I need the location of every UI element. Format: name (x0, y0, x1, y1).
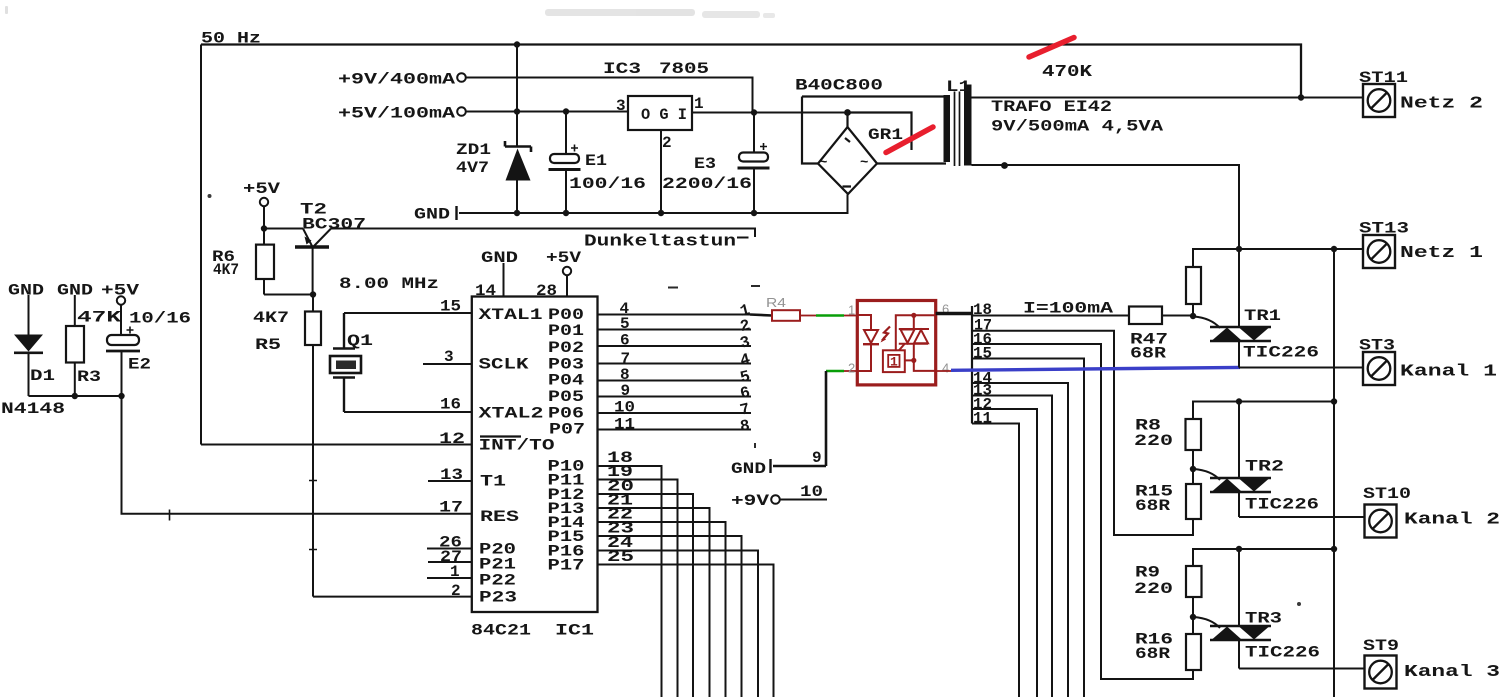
svg-text:P02: P02 (548, 339, 584, 357)
opto phototriac (896, 315, 936, 371)
wire phase rail (1333, 249, 1335, 697)
svg-text:ST9: ST9 (1363, 637, 1399, 655)
svg-text:SCLK: SCLK (479, 356, 530, 374)
red marker stroke over top rail (1029, 38, 1074, 58)
connector ST13 (1363, 235, 1395, 268)
wire 16 (972, 344, 1193, 679)
svg-text:O G I: O G I (641, 106, 687, 124)
svg-text:9: 9 (812, 449, 822, 467)
junction T2 base / R5 (310, 291, 316, 297)
triac TR2 TIC226 (1210, 478, 1271, 492)
svg-text:10/16: 10/16 (129, 310, 191, 328)
svg-text:TR2: TR2 (1245, 458, 1284, 476)
wire pin13 T1 stub (428, 480, 472, 482)
wire: 50Hz drop to INT/T0 (200, 45, 202, 445)
svg-text:N4148: N4148 (1, 400, 65, 418)
wire P16 pin24 (598, 551, 759, 697)
svg-text:220: 220 (1134, 580, 1173, 598)
svg-text:TIC226: TIC226 (1243, 344, 1319, 362)
junction Netz1/TR1 (1236, 246, 1242, 252)
svg-text:E3: E3 (694, 155, 716, 173)
svg-text:+9V: +9V (731, 492, 770, 510)
svg-text:BC307: BC307 (302, 216, 366, 234)
svg-text:TR3: TR3 (1245, 610, 1282, 628)
wire P07 pin11 (598, 429, 752, 431)
wire 18 to R47 (972, 315, 1129, 317)
junction GND/7805 pin2 (658, 210, 664, 216)
resistor R47 (1129, 307, 1162, 325)
wire pin12 INT/T0 (201, 444, 472, 446)
wire +9V feed (466, 78, 753, 113)
junction E2/bottom (118, 393, 124, 399)
svg-text:ST13: ST13 (1359, 220, 1409, 238)
wire trafo bottom to Netz1 (972, 165, 1240, 249)
svg-text:P04: P04 (548, 372, 584, 390)
svg-text:10: 10 (614, 399, 635, 417)
svg-text:3: 3 (444, 348, 454, 366)
red marker stroke over bridge (886, 127, 933, 153)
resistor R6 (256, 229, 313, 295)
svg-text:4K7: 4K7 (213, 261, 239, 279)
wire 11 (972, 424, 1019, 697)
wire R8 to R15 (1192, 450, 1194, 484)
wire 12 (972, 409, 1037, 697)
opto light arrows (882, 327, 890, 341)
junction R47/R7 (1190, 313, 1196, 319)
wire +5V feed to 7805 pin3 (466, 111, 628, 113)
svg-text:T1: T1 (480, 473, 506, 491)
terminal circle +5V E2 (117, 296, 125, 304)
transistor T2 BC307 (295, 229, 331, 295)
svg-text:IC1: IC1 (555, 622, 594, 640)
wire Kanal2 (1239, 516, 1365, 518)
capacitor E2 (106, 305, 140, 396)
wire P12 pin20 (598, 494, 694, 697)
svg-text:GND: GND (731, 460, 766, 478)
wire TR1 gate (1194, 317, 1220, 329)
svg-text:68R: 68R (1135, 497, 1170, 515)
svg-text:P23: P23 (479, 589, 517, 607)
junction top rail / zener (514, 41, 520, 47)
wire TR1 MT2 (1238, 249, 1240, 327)
wire pin28 (566, 276, 568, 297)
svg-text:25: 25 (607, 548, 634, 566)
wire P13 pin21 (598, 508, 710, 697)
scan smudge top (5, 6, 775, 18)
svg-text:1: 1 (450, 563, 460, 581)
resistor R8 (1186, 419, 1202, 450)
junction GND/zener (514, 210, 520, 216)
transformer L1 secondary bar (964, 85, 972, 166)
svg-text:+5V: +5V (546, 249, 581, 267)
wire TR2 MT1 (1238, 492, 1240, 517)
svg-text:84C21: 84C21 (471, 622, 531, 640)
junction opto marking (911, 358, 916, 363)
svg-text:8.00 MHz: 8.00 MHz (339, 275, 439, 293)
wire: 50Hz top rail (201, 45, 1301, 98)
terminal circle +5V (457, 107, 466, 116)
svg-text:E2: E2 (128, 356, 151, 374)
svg-text:I=100mA: I=100mA (1023, 300, 1114, 318)
svg-text:GND: GND (8, 282, 44, 300)
svg-text:ST3: ST3 (1359, 337, 1395, 355)
svg-text:GR1: GR1 (868, 126, 903, 144)
junction +9V/E3 (751, 109, 757, 115)
wire opto pin6 to bus (936, 312, 972, 315)
wire Kanal1 (1239, 367, 1363, 369)
wire P01 pin5 (598, 329, 752, 331)
wire 15 (972, 359, 1084, 697)
speck marks above P0 bus (668, 286, 760, 288)
svg-text:6: 6 (620, 332, 630, 350)
wire P10 pin18 (598, 466, 662, 697)
svg-text:L1: L1 (946, 78, 971, 96)
svg-text:R3: R3 (77, 368, 101, 386)
svg-text:1: 1 (694, 95, 704, 113)
tick on RES wire (169, 510, 171, 521)
svg-text:ZD1: ZD1 (456, 141, 491, 159)
tick near P07 (754, 443, 756, 448)
wire P17 pin25 (598, 565, 774, 697)
svg-text:XTAL2: XTAL2 (479, 405, 544, 423)
svg-text:P05: P05 (548, 388, 584, 406)
junction TR3 top/MT2 (1236, 546, 1242, 552)
wire GND to opto pin2 (773, 465, 826, 468)
wire 13 (972, 396, 1052, 697)
wire R9 to R16 (1192, 597, 1194, 634)
wire R47 to TR1 gate (1162, 315, 1193, 317)
svg-text:15: 15 (440, 298, 461, 316)
wire pin26 stub (427, 548, 472, 550)
svg-text:RES: RES (480, 508, 520, 526)
wire P04 pin8 (598, 380, 752, 382)
svg-text:P22: P22 (479, 572, 516, 590)
svg-text:R4: R4 (766, 295, 786, 310)
wire pin27 stub (428, 561, 472, 563)
resistor R4 (750, 315, 772, 316)
wire 7805 pin2 to GND rail (660, 130, 662, 213)
wire 14 (972, 383, 1068, 697)
wire R4 to opto pin1 (800, 315, 816, 317)
svg-text:ST10: ST10 (1363, 485, 1411, 503)
svg-text:13: 13 (440, 466, 463, 484)
svg-text:9: 9 (621, 382, 631, 400)
svg-text:2: 2 (848, 361, 855, 376)
blue marker wire (opto pin4 to Kanal1) (951, 367, 1240, 370)
connector ST3 (1363, 352, 1395, 385)
svg-text:XTAL1: XTAL1 (479, 306, 543, 324)
svg-text:4K7: 4K7 (253, 309, 289, 327)
svg-text:4: 4 (942, 361, 949, 376)
resistor R9 (1186, 566, 1202, 597)
svg-text:28: 28 (536, 282, 557, 300)
svg-text:ST11: ST11 (1359, 69, 1408, 87)
opto marking box 1 (883, 350, 905, 372)
connector ST10 (1365, 505, 1397, 538)
resistor R5 (305, 295, 321, 597)
svg-text:GND: GND (481, 249, 518, 267)
svg-text:Kanal 1: Kanal 1 (1400, 363, 1497, 382)
junction TR2 gate (1190, 466, 1196, 472)
optocoupler U2 body (857, 301, 935, 385)
svg-text:Kanal 3: Kanal 3 (1404, 663, 1500, 682)
connector ST9 (1365, 656, 1397, 689)
capacitor E1 (549, 112, 581, 214)
svg-text:14: 14 (475, 282, 496, 300)
svg-text:68R: 68R (1130, 345, 1166, 363)
wire +5V to T2 emitter / R6 (264, 206, 303, 229)
svg-text:E1: E1 (585, 152, 607, 170)
zener ZD1 4V7 (505, 45, 531, 214)
wire P15 pin23 (598, 536, 742, 697)
wire pin16 XTAL2 to crystal (344, 411, 472, 413)
wire TR3 MT2 (1238, 549, 1240, 626)
wire Dunkeltastung (T2 collector) (331, 229, 755, 238)
wire TR1 MT1 (1238, 341, 1240, 368)
svg-text:P17: P17 (548, 557, 585, 575)
junction +5V/zener (514, 108, 520, 114)
wire P05 pin9 (598, 396, 752, 398)
wire 17 (972, 331, 1193, 535)
wire P02 pin6 (598, 345, 752, 347)
svg-text:~: ~ (860, 155, 868, 171)
wire +9V stub (780, 499, 827, 501)
junction Netz1/rail (1331, 246, 1337, 252)
wire opto pin2 to GND (825, 371, 828, 466)
wire TR3 MT1 (1238, 640, 1240, 669)
junction TR2 top/MT2 (1236, 398, 1242, 404)
svg-text:D1: D1 (30, 367, 55, 385)
svg-text:IC3: IC3 (603, 60, 641, 78)
svg-text:B40C800: B40C800 (795, 77, 883, 95)
wire pin3 SCLK stub (423, 363, 472, 365)
wire TR3 gate (1194, 617, 1220, 628)
speck left mid (208, 194, 212, 198)
svg-text:4V7: 4V7 (456, 159, 489, 177)
wire P06 pin10 (598, 412, 752, 414)
svg-text:47K: 47K (77, 309, 122, 327)
wire P14 pin22 (598, 522, 726, 697)
junction on trafo bottom wire (1001, 162, 1008, 169)
svg-text:68R: 68R (1135, 645, 1170, 663)
wire pin2 P23 to R5 (313, 596, 472, 598)
transformer L1 primary bar (944, 95, 951, 162)
junction +5V/R6 (261, 225, 267, 231)
terminal circle +5V T2 (260, 198, 268, 206)
transformer core (955, 92, 960, 167)
regulator IC3 7805 body (628, 96, 692, 130)
green wire segment pin2 (826, 370, 844, 372)
junction TR2 top/rail (1331, 398, 1337, 404)
wire GND rail to bridge minus (459, 195, 848, 214)
triac TR3 TIC226 (1210, 626, 1271, 640)
svg-text:12: 12 (439, 430, 465, 448)
svg-text:2: 2 (662, 134, 672, 152)
svg-text:7805: 7805 (659, 60, 709, 78)
resistor R15 (1186, 484, 1201, 519)
svg-text:220: 220 (1134, 432, 1173, 450)
wire P11 pin19 (598, 480, 678, 697)
crystal Q1 (330, 313, 361, 412)
svg-text:TIC226: TIC226 (1245, 644, 1320, 662)
wire TR3 top (1193, 549, 1334, 566)
terminal circle +9V (457, 73, 466, 82)
svg-text:2: 2 (451, 582, 461, 600)
wire TR2 gate (1194, 469, 1220, 480)
svg-text:P07: P07 (549, 421, 585, 439)
capacitor E3 (738, 113, 770, 214)
wire reset to RES pin17 (122, 396, 472, 514)
bridge polarity marks (843, 138, 852, 187)
bridge rectifier GR1 (802, 97, 946, 195)
svg-text:5: 5 (620, 315, 630, 333)
svg-text:GND: GND (414, 206, 450, 224)
svg-text:Dunkeltastun: Dunkeltastun (584, 233, 736, 252)
triac TR1 TIC226 (1210, 327, 1271, 341)
terminal circle +5V IC (563, 267, 571, 275)
wire reset net bottom (29, 395, 122, 397)
svg-text:16: 16 (440, 396, 461, 414)
svg-text:100/16: 100/16 (569, 175, 646, 193)
svg-text:Q1: Q1 (347, 332, 373, 350)
opto LED (857, 315, 879, 371)
wire 7805 pin1 to bridge + (692, 112, 848, 114)
diode D1 1N4148 (14, 295, 43, 396)
svg-text:10: 10 (800, 483, 823, 501)
bus spine (971, 306, 973, 424)
svg-text:17: 17 (439, 499, 463, 517)
junction bridge plus (844, 109, 851, 116)
IC U1 84C21 body (472, 297, 598, 613)
junction TR3 gate (1190, 614, 1196, 620)
svg-text:INT/TO: INT/TO (479, 437, 556, 455)
wire pin1 stub (427, 577, 472, 579)
svg-text:11: 11 (973, 410, 992, 428)
svg-text:TR1: TR1 (1244, 307, 1281, 325)
green wire segment pin1 (816, 314, 844, 316)
speck right (1297, 602, 1301, 606)
junction GND/E3 (751, 210, 757, 216)
wire pin14 GND (503, 263, 505, 297)
svg-text:R9: R9 (1135, 564, 1160, 582)
junction +5V/E1 (563, 108, 569, 114)
resistor R7 (TR1 top) (1186, 249, 1201, 317)
junction Netz2 / 50Hz rail (1298, 94, 1304, 100)
svg-text:9V/500mA 4,5VA: 9V/500mA 4,5VA (991, 118, 1164, 136)
junction TR3 top/rail (1331, 546, 1337, 552)
wire opto pin4 stub (936, 370, 951, 372)
wire pin15 XTAL1 to crystal (344, 312, 472, 314)
wire TR2 MT2 (1238, 402, 1240, 479)
junction R3/bottom (72, 393, 78, 399)
resistor R16 (1186, 634, 1201, 670)
resistor R3 (66, 295, 84, 396)
svg-text:Netz 1: Netz 1 (1400, 244, 1483, 263)
svg-text:Netz 2: Netz 2 (1400, 95, 1483, 114)
wire Kanal3 (1239, 668, 1365, 670)
terminal circle +9V opto (771, 495, 780, 504)
svg-text:TIC226: TIC226 (1245, 496, 1319, 514)
wire P03 pin7 (598, 363, 752, 365)
wire TR2 top (1193, 402, 1334, 420)
wire P00 pin4 (598, 314, 751, 316)
connector ST11 (1363, 84, 1395, 117)
svg-text:11: 11 (614, 416, 635, 434)
svg-text:2200/16: 2200/16 (662, 175, 752, 193)
svg-text:15: 15 (973, 345, 992, 363)
junction opto pin6 (911, 313, 916, 318)
svg-text:1: 1 (848, 303, 855, 318)
svg-text:TRAFO EI42: TRAFO EI42 (991, 98, 1112, 116)
svg-text:~: ~ (819, 155, 827, 171)
svg-text:470K: 470K (1042, 63, 1093, 82)
svg-text:1: 1 (890, 355, 898, 370)
wire Netz2 (trafo top to ST11) (972, 97, 1364, 99)
svg-text:+5V/100mA: +5V/100mA (338, 105, 456, 123)
svg-text:+9V/400mA: +9V/400mA (338, 71, 456, 89)
svg-text:3: 3 (616, 97, 626, 115)
junction GND/E1 (563, 210, 569, 216)
svg-text:R5: R5 (255, 336, 281, 354)
wire Netz1 (1192, 248, 1363, 250)
svg-text:Kanal 2: Kanal 2 (1404, 511, 1500, 530)
svg-text:+5V: +5V (243, 180, 281, 198)
svg-text:P01: P01 (548, 322, 584, 340)
